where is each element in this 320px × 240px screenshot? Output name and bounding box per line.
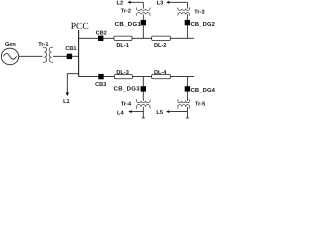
svg-text:Tr-3: Tr-3 [194,10,204,16]
svg-text:Tr-4: Tr-4 [121,102,132,108]
svg-text:Tr-1: Tr-1 [38,42,48,48]
svg-text:CB_DG1: CB_DG1 [115,21,142,28]
svg-text:CB3: CB3 [95,82,106,88]
svg-text:Gen: Gen [5,42,16,48]
svg-text:L4: L4 [117,111,124,117]
svg-text:CB_DG4: CB_DG4 [191,87,215,94]
svg-text:Tr-2: Tr-2 [121,8,131,14]
svg-text:CB_DG3: CB_DG3 [114,86,141,93]
svg-text:DL-2: DL-2 [154,43,166,49]
svg-text:PCC: PCC [71,22,89,32]
svg-text:DL-4: DL-4 [154,70,167,76]
svg-text:L2: L2 [117,1,124,7]
svg-text:CB2: CB2 [96,30,107,36]
svg-text:L1: L1 [63,99,70,105]
svg-text:CB1: CB1 [65,46,76,52]
svg-text:DL-3: DL-3 [116,70,128,76]
svg-text:Tr-5: Tr-5 [195,101,205,107]
svg-text:L5: L5 [156,110,163,116]
svg-text:CB_DG2: CB_DG2 [191,21,215,28]
svg-text:DL-1: DL-1 [116,43,128,49]
svg-text:L3: L3 [157,1,164,7]
